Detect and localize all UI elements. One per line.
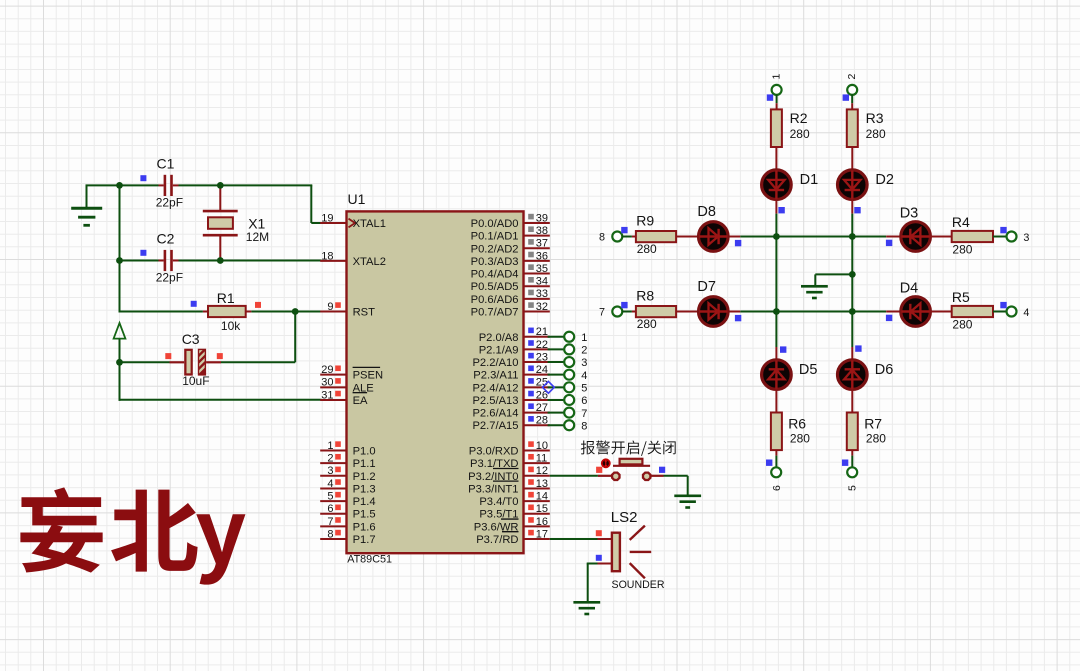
svg-text:9: 9	[327, 301, 333, 313]
svg-text:280: 280	[866, 127, 886, 141]
svg-text:19: 19	[321, 212, 333, 224]
svg-text:4: 4	[327, 478, 333, 490]
svg-text:R9: R9	[636, 212, 654, 228]
svg-text:SOUNDER: SOUNDER	[612, 579, 665, 591]
svg-text:7: 7	[327, 516, 333, 528]
svg-text:23: 23	[536, 351, 548, 363]
svg-text:1: 1	[327, 440, 333, 452]
svg-text:R8: R8	[636, 287, 654, 303]
svg-text:8: 8	[599, 232, 605, 244]
svg-text:P3.3/INT1: P3.3/INT1	[468, 483, 518, 495]
svg-text:10: 10	[536, 440, 548, 452]
svg-text:P0.0/AD0: P0.0/AD0	[471, 218, 519, 230]
svg-text:P2.2/A10: P2.2/A10	[472, 357, 518, 369]
svg-text:2: 2	[581, 345, 587, 357]
svg-text:5: 5	[581, 383, 587, 395]
svg-text:P0.6/AD6: P0.6/AD6	[471, 294, 519, 306]
svg-text:15: 15	[536, 503, 548, 515]
svg-text:XTAL2: XTAL2	[353, 256, 386, 268]
svg-text:1: 1	[770, 74, 782, 80]
svg-text:4: 4	[1023, 307, 1029, 319]
svg-text:P2.1/A9: P2.1/A9	[479, 344, 519, 356]
svg-text:P2.0/A8: P2.0/A8	[479, 332, 519, 344]
svg-text:AT89C51: AT89C51	[347, 553, 392, 565]
svg-text:280: 280	[790, 127, 810, 141]
svg-text:28: 28	[536, 415, 548, 427]
svg-text:U1: U1	[348, 191, 366, 207]
svg-text:280: 280	[952, 318, 972, 332]
svg-text:34: 34	[536, 276, 548, 288]
svg-text:P1.7: P1.7	[353, 534, 376, 546]
svg-text:D6: D6	[875, 362, 894, 378]
svg-text:R7: R7	[864, 415, 882, 431]
svg-text:P0.2/AD2: P0.2/AD2	[471, 243, 519, 255]
svg-text:X1: X1	[248, 215, 265, 231]
svg-text:8: 8	[581, 420, 587, 432]
svg-text:30: 30	[321, 377, 333, 389]
svg-text:D8: D8	[697, 204, 716, 220]
svg-text:D5: D5	[799, 362, 818, 378]
svg-text:2: 2	[846, 74, 858, 80]
svg-text:P0.4/AD4: P0.4/AD4	[471, 269, 519, 281]
svg-text:5: 5	[847, 485, 859, 491]
svg-text:C2: C2	[157, 231, 175, 247]
svg-text:35: 35	[536, 263, 548, 275]
svg-text:6: 6	[771, 485, 783, 491]
svg-text:280: 280	[637, 317, 657, 331]
svg-text:22pF: 22pF	[156, 270, 183, 284]
svg-text:P0.5/AD5: P0.5/AD5	[471, 281, 519, 293]
svg-text:6: 6	[581, 395, 587, 407]
svg-text:C1: C1	[157, 156, 175, 172]
svg-text:12: 12	[536, 465, 548, 477]
svg-text:36: 36	[536, 250, 548, 262]
svg-text:3: 3	[327, 465, 333, 477]
svg-text:2: 2	[327, 453, 333, 465]
svg-text:16: 16	[536, 516, 548, 528]
svg-text:12M: 12M	[246, 230, 269, 244]
svg-text:D7: D7	[697, 279, 716, 295]
svg-text:C3: C3	[182, 331, 200, 347]
svg-text:280: 280	[952, 243, 972, 257]
svg-text:280: 280	[866, 432, 886, 446]
svg-text:P0.1/AD1: P0.1/AD1	[471, 231, 519, 243]
svg-text:6: 6	[327, 503, 333, 515]
svg-text:33: 33	[536, 288, 548, 300]
svg-text:32: 32	[536, 301, 548, 313]
svg-text:D1: D1	[800, 172, 819, 188]
svg-text:R2: R2	[790, 110, 808, 126]
svg-text:14: 14	[536, 490, 548, 502]
svg-text:17: 17	[536, 528, 548, 540]
svg-text:D3: D3	[900, 205, 919, 221]
svg-text:D4: D4	[900, 280, 919, 296]
svg-text:P2.3/A11: P2.3/A11	[473, 370, 518, 382]
svg-text:21: 21	[536, 326, 548, 338]
svg-text:P1.5: P1.5	[353, 509, 376, 521]
svg-text:XTAL1: XTAL1	[353, 218, 386, 230]
svg-text:29: 29	[321, 364, 333, 376]
svg-text:P2.7/A15: P2.7/A15	[472, 420, 518, 432]
svg-text:PSEN: PSEN	[353, 370, 383, 382]
svg-text:22pF: 22pF	[156, 195, 183, 209]
svg-text:P3.0/RXD: P3.0/RXD	[469, 446, 519, 458]
svg-text:1: 1	[581, 332, 587, 344]
svg-text:10k: 10k	[221, 319, 241, 333]
svg-text:22: 22	[536, 339, 548, 351]
svg-text:R1: R1	[217, 290, 235, 306]
svg-text:P1.4: P1.4	[353, 496, 376, 508]
svg-text:280: 280	[790, 432, 810, 446]
svg-text:P0.3/AD3: P0.3/AD3	[471, 256, 519, 268]
svg-text:R4: R4	[952, 214, 970, 230]
svg-text:280: 280	[637, 242, 657, 256]
svg-text:3: 3	[1023, 232, 1029, 244]
svg-text:24: 24	[536, 364, 548, 376]
svg-text:3: 3	[581, 357, 587, 369]
svg-text:P3.4/T0: P3.4/T0	[479, 496, 518, 508]
svg-text:P0.7/AD7: P0.7/AD7	[471, 306, 519, 318]
svg-text:P3.7/RD: P3.7/RD	[476, 534, 518, 546]
svg-text:39: 39	[536, 212, 548, 224]
svg-text:7: 7	[599, 307, 605, 319]
svg-text:P2.6/A14: P2.6/A14	[472, 408, 518, 420]
svg-text:P1.2: P1.2	[353, 471, 376, 483]
svg-text:P1.1: P1.1	[353, 458, 376, 470]
svg-text:8: 8	[327, 528, 333, 540]
svg-text:10uF: 10uF	[182, 374, 209, 388]
svg-text:7: 7	[581, 408, 587, 420]
svg-text:31: 31	[321, 389, 333, 401]
svg-text:R3: R3	[866, 110, 884, 126]
svg-text:13: 13	[536, 478, 548, 490]
svg-text:18: 18	[321, 250, 333, 262]
svg-text:LS2: LS2	[611, 509, 638, 526]
svg-text:P2.4/A12: P2.4/A12	[472, 382, 518, 394]
svg-text:P2.5/A13: P2.5/A13	[472, 395, 518, 407]
svg-text:P1.3: P1.3	[353, 483, 376, 495]
svg-text:P1.6: P1.6	[353, 521, 376, 533]
svg-text:11: 11	[536, 453, 547, 465]
svg-text:5: 5	[327, 490, 333, 502]
svg-text:R6: R6	[788, 415, 806, 431]
svg-text:R5: R5	[952, 289, 970, 305]
svg-text:P1.0: P1.0	[353, 446, 376, 458]
svg-text:EA: EA	[353, 395, 368, 407]
svg-text:37: 37	[536, 238, 548, 250]
svg-text:4: 4	[581, 370, 587, 382]
svg-text:38: 38	[536, 225, 548, 237]
svg-text:RST: RST	[353, 306, 376, 318]
svg-text:27: 27	[536, 402, 548, 414]
svg-text:D2: D2	[875, 172, 894, 188]
